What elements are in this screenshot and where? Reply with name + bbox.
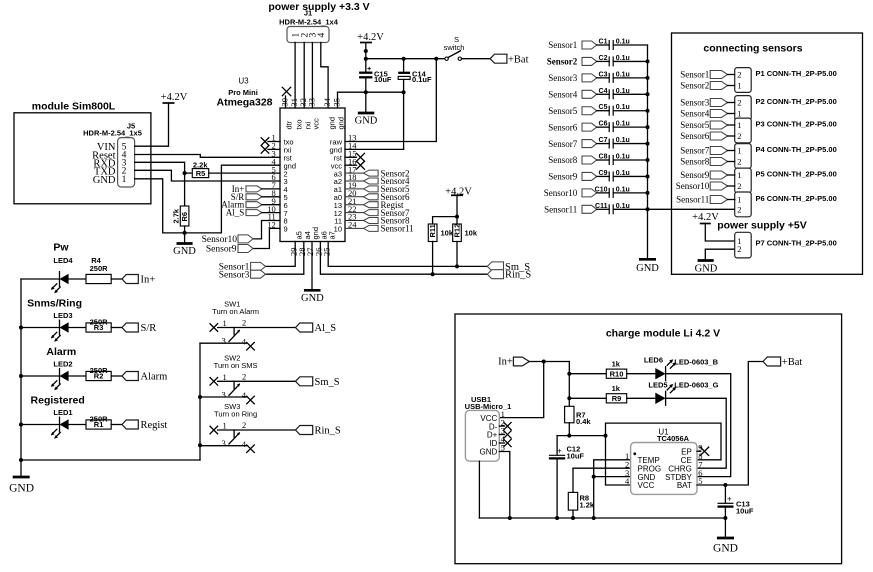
resistor R6 2.7k	[184, 173, 186, 206]
net label Sm_S (switch)	[296, 377, 313, 386]
resistor R9 1k	[569, 397, 606, 399]
svg-text:C6: C6	[599, 121, 608, 128]
resistor R10 1k	[569, 373, 606, 375]
resistor R5 2.2k	[185, 172, 193, 174]
svg-text:1: 1	[737, 195, 741, 205]
wire Sensor11 row to P6 pin2	[648, 208, 735, 210]
net label +Bat (charge)	[763, 357, 781, 366]
wire VCC to U1 pin4	[606, 436, 631, 485]
no-connect X on USB1 D-	[499, 425, 504, 427]
junction TEMP/GND	[592, 475, 596, 479]
svg-text:25: 25	[321, 248, 331, 257]
wire LED ground bus	[20, 279, 22, 460]
svg-text:+Bat: +Bat	[508, 55, 529, 66]
junction gnd line at C15	[364, 90, 368, 94]
wire +4.2V rail	[366, 58, 445, 60]
wire gnd line under R6	[163, 232, 222, 234]
wire Sensor7 to P4	[728, 150, 735, 152]
switch SW1 pin4 no-connect X	[247, 342, 255, 350]
connector P7 body	[735, 232, 752, 258]
svg-text:Sensor1: Sensor1	[680, 70, 709, 80]
svg-text:1.2k: 1.2k	[580, 500, 595, 509]
svg-text:Sensor9: Sensor9	[548, 172, 577, 182]
svg-text:R12: R12	[452, 224, 461, 238]
no-connect X on U3 pin1	[268, 141, 280, 143]
capacitor C13 10uF	[724, 485, 726, 503]
no-connect X on USB1 D+	[499, 434, 504, 436]
wire J5.4 Reset to U3 rst pin3	[135, 155, 280, 158]
net label Sensor8 (U3 right)	[345, 220, 364, 222]
svg-text:Sensor1: Sensor1	[548, 40, 577, 50]
svg-text:Sensor7: Sensor7	[680, 146, 709, 156]
net label Alarm (LED)	[111, 375, 122, 377]
svg-text:HDR-M-2.54_1x5: HDR-M-2.54_1x5	[83, 129, 142, 138]
net label +Bat (top)	[490, 54, 507, 63]
capacitor C4 0.1u	[597, 93, 610, 95]
wire switch to +Bat	[462, 58, 491, 60]
svg-text:+: +	[367, 66, 371, 73]
svg-text:connecting sensors: connecting sensors	[703, 43, 802, 55]
junction feed R10	[567, 372, 571, 376]
svg-text:3: 3	[222, 336, 226, 346]
wire J1.2 to U3 pin32	[303, 43, 305, 109]
wire J5.3 RXD to divider node	[135, 162, 185, 173]
net label Sm_S (right)	[487, 262, 503, 271]
svg-text:Alarm: Alarm	[46, 346, 76, 358]
LED LED4	[21, 278, 60, 280]
svg-text:1: 1	[122, 175, 127, 185]
connector P6 body	[735, 192, 752, 217]
svg-text:9: 9	[284, 225, 288, 234]
ground (cap array)	[639, 258, 656, 261]
wire U3 a7 to Sm_S line	[328, 242, 487, 267]
wire Sensor8 to P4	[728, 161, 735, 163]
switch SW1 pole	[233, 328, 235, 335]
svg-text:4: 4	[242, 390, 247, 400]
svg-text:LED-0603_B: LED-0603_B	[674, 357, 718, 366]
no-connect X on U3 pin30 dtr	[285, 96, 287, 108]
wire Sensor11 to P6	[728, 199, 735, 201]
svg-text:a7: a7	[327, 231, 336, 239]
svg-text:Sensor11: Sensor11	[381, 224, 414, 234]
net label Regist (LED)	[111, 424, 122, 426]
wire +4.2V to P7 pin1	[705, 224, 734, 242]
svg-text:+Bat: +Bat	[782, 357, 803, 368]
svg-text:P5 CONN-TH_2P-P5.00: P5 CONN-TH_2P-P5.00	[756, 170, 837, 179]
net label In+ (LED)	[111, 278, 122, 280]
junction feed R9	[567, 396, 571, 400]
svg-text:Sensor11: Sensor11	[676, 195, 709, 205]
svg-text:LED6: LED6	[644, 356, 663, 365]
svg-text:In+: In+	[141, 275, 156, 286]
net label Rin_S (switch)	[296, 426, 313, 435]
svg-text:vcc: vcc	[312, 118, 321, 130]
svg-text:+4.2V: +4.2V	[161, 92, 188, 103]
wire C4 to gnd bus	[613, 93, 647, 95]
wire Sensor9 to U3 pin12	[253, 228, 280, 248]
switch SW1 top contact wire	[218, 327, 296, 329]
junction on +4.2V stem	[364, 49, 368, 53]
svg-text:Sensor11: Sensor11	[544, 205, 577, 215]
wire charge ground rail	[479, 517, 725, 519]
no-connect X on U3 vcc pin16	[345, 164, 357, 166]
svg-text:Sensor8: Sensor8	[680, 157, 709, 167]
svg-text:GND: GND	[173, 246, 196, 257]
capacitor C11 0.1u	[597, 208, 610, 210]
frame charge module	[455, 314, 842, 564]
svg-text:2: 2	[737, 181, 741, 191]
svg-text:C9: C9	[599, 170, 608, 177]
switch SW3 bottom contact wire	[200, 445, 247, 447]
svg-text:2: 2	[242, 420, 246, 430]
resistor R8 1.2k	[572, 468, 574, 492]
capacitor C1 0.1u	[597, 44, 610, 46]
svg-text:R6: R6	[180, 212, 189, 222]
connector P3 body	[735, 118, 752, 143]
junction SW2 on bus	[198, 395, 202, 399]
svg-text:1: 1	[737, 81, 741, 91]
resistor R3 250R	[69, 327, 86, 329]
svg-text:Sensor6: Sensor6	[548, 122, 577, 132]
wire TEMP to GND net	[594, 460, 631, 477]
LED LED3	[21, 327, 60, 329]
svg-text:dtr: dtr	[285, 120, 294, 129]
wire VCC rail	[557, 435, 605, 437]
svg-text:2: 2	[737, 98, 741, 108]
svg-text:30: 30	[279, 98, 289, 107]
wire In+ feed	[529, 361, 569, 363]
net label Sensor4 (U3 right)	[345, 180, 364, 182]
switch SW1 bottom contact wire	[200, 342, 247, 344]
net label Rin_S (right)	[487, 270, 503, 279]
wire GND net down	[593, 477, 595, 518]
U1 body	[631, 443, 697, 495]
svg-text:Sensor2: Sensor2	[547, 57, 578, 67]
svg-text:Sm_S: Sm_S	[315, 377, 340, 388]
wire U3 a4 to Sensor3	[266, 242, 304, 275]
svg-text:Alarm: Alarm	[141, 372, 168, 383]
switch SW2 bottom contact wire	[200, 396, 247, 398]
svg-text:P6 CONN-TH_2P-P5.00: P6 CONN-TH_2P-P5.00	[756, 194, 837, 203]
capacitor C14	[403, 59, 405, 72]
connector P1 body	[735, 68, 752, 93]
svg-text:2: 2	[242, 372, 246, 382]
svg-text:2: 2	[737, 131, 741, 141]
svg-text:Sensor10: Sensor10	[676, 181, 710, 191]
U1 pin1 marker	[633, 452, 636, 455]
svg-text:Al_S: Al_S	[315, 323, 337, 334]
svg-text:Sensor4: Sensor4	[548, 89, 577, 99]
svg-text:Snms/Ring: Snms/Ring	[27, 298, 82, 310]
capacitor C2 0.1u	[597, 60, 610, 62]
svg-text:Sensor4: Sensor4	[680, 109, 709, 119]
svg-text:power supply +5V: power supply +5V	[717, 220, 807, 232]
svg-text:C1: C1	[599, 39, 608, 46]
wire C1 to gnd bus	[613, 44, 647, 46]
svg-text:switch: switch	[444, 43, 465, 52]
svg-text:10k: 10k	[465, 229, 478, 238]
net label Sensor7 (U3 right)	[345, 212, 364, 214]
ground (near C15)	[358, 112, 375, 115]
svg-text:Sensor2: Sensor2	[680, 81, 709, 91]
connector P5 body	[735, 168, 752, 193]
svg-text:P2 CONN-TH_2P-P5.00: P2 CONN-TH_2P-P5.00	[756, 97, 837, 106]
switch SW2 top contact wire	[218, 380, 296, 382]
junction In+ to USB VCC	[542, 360, 546, 364]
resistor R11 10k	[432, 217, 434, 224]
wire USB1 shell to rail	[478, 461, 480, 518]
junction rail R8	[571, 516, 575, 520]
svg-text:S/R: S/R	[141, 323, 157, 334]
svg-text:1: 1	[223, 421, 227, 431]
wire Sensor4 to P2	[728, 113, 735, 115]
net label Sensor11 (U3 right)	[345, 227, 364, 229]
svg-text:0.4k: 0.4k	[576, 417, 591, 426]
svg-text:Pw: Pw	[53, 242, 69, 254]
svg-text:2.2k: 2.2k	[193, 161, 208, 170]
junction cap bus	[646, 191, 650, 195]
svg-text:4: 4	[317, 33, 327, 38]
junction divider node	[183, 171, 187, 175]
wire U3 a5 to Sensor1	[266, 242, 296, 267]
svg-text:Regist: Regist	[141, 420, 168, 431]
capacitor C8 0.1u	[597, 159, 610, 161]
connector J5 body	[118, 138, 135, 187]
svg-text:GND: GND	[93, 175, 116, 186]
svg-text:GND: GND	[636, 263, 659, 274]
resistor R12 10k	[456, 217, 458, 224]
svg-text:0.1uF: 0.1uF	[412, 75, 432, 84]
wire J1.4 to U3 pin34	[321, 43, 328, 109]
svg-text:LED3: LED3	[53, 311, 72, 320]
svg-text:10uF: 10uF	[736, 506, 754, 515]
no-connect X on USB1 ID	[499, 442, 504, 444]
svg-text:2.7k: 2.7k	[172, 208, 181, 223]
svg-text:J1: J1	[304, 9, 312, 18]
svg-text:R1: R1	[94, 420, 104, 429]
junction pullup node	[455, 215, 459, 219]
svg-text:U3: U3	[238, 77, 249, 86]
wire J1.1 to U3 pin31	[294, 43, 296, 109]
wire J5.2 TXD to U3 pin6	[135, 170, 280, 181]
net label S/R (LED)	[111, 327, 122, 329]
capacitor C9 0.1u	[597, 175, 610, 177]
svg-text:Turn on Ring: Turn on Ring	[214, 410, 257, 419]
LED LED1	[21, 424, 60, 426]
wire In+ down feed	[568, 362, 570, 407]
connector P4 body	[735, 144, 752, 169]
junction cap bus	[646, 76, 650, 80]
ground (LED bus)	[20, 460, 22, 477]
svg-text:4: 4	[242, 336, 247, 346]
svg-text:charge module Li 4.2 V: charge module Li 4.2 V	[606, 328, 720, 340]
wire J5.5 VIN to +4.2V	[135, 103, 169, 146]
wire Sensor5 to P3	[728, 124, 735, 126]
wire Alarm tag to U3	[262, 204, 280, 206]
svg-text:10uF: 10uF	[567, 451, 585, 460]
svg-text:R11: R11	[428, 224, 437, 237]
junction cap bus	[646, 92, 650, 96]
svg-text:P1 CONN-TH_2P-P5.00: P1 CONN-TH_2P-P5.00	[756, 69, 837, 78]
svg-text:1: 1	[223, 318, 227, 328]
capacitor C5 0.1u	[597, 110, 610, 112]
svg-text:1: 1	[737, 109, 741, 119]
wire Sensor2 to P1	[728, 85, 735, 87]
power +4.2V (Sim800L)	[163, 102, 175, 104]
svg-text:3: 3	[222, 438, 226, 448]
junction LED bus	[19, 423, 23, 427]
wire Sensor3 to P2	[728, 102, 735, 104]
junction cap bus	[646, 142, 650, 146]
svg-text:GND: GND	[301, 293, 324, 304]
svg-text:GND: GND	[480, 448, 498, 457]
wire C7 to gnd bus	[613, 143, 647, 145]
svg-text:33: 33	[306, 98, 316, 107]
junction cap bus	[646, 207, 650, 211]
svg-text:C3: C3	[599, 71, 608, 78]
svg-text:Turn on Alarm: Turn on Alarm	[212, 307, 259, 316]
junction cap bus	[646, 59, 650, 63]
svg-text:P7 CONN-TH_2P-P5.00: P7 CONN-TH_2P-P5.00	[756, 239, 837, 248]
net label Sensor6 (U3 right)	[345, 196, 364, 198]
wire U3 pin4 gnd to gnd line	[221, 165, 280, 233]
svg-text:Rin_S: Rin_S	[505, 270, 531, 281]
wire USB1 GND to rail	[499, 452, 510, 519]
svg-text:HDR-M-2.54_1x4: HDR-M-2.54_1x4	[279, 18, 339, 27]
svg-text:1k: 1k	[612, 384, 621, 393]
resistor R1 250R	[69, 424, 86, 426]
U3 body	[280, 108, 345, 242]
wire Sensor10 to P5	[728, 185, 735, 187]
net label Sensor2 (U3 right)	[345, 172, 364, 174]
wire LED6 to STDBY	[666, 374, 731, 477]
svg-text:R5: R5	[196, 169, 206, 178]
wire C3 to gnd bus	[613, 77, 647, 79]
wire In+ tag to U3	[262, 188, 280, 190]
wire C5 to gnd bus	[613, 110, 647, 112]
svg-text:VCC: VCC	[638, 481, 655, 490]
svg-text:C11: C11	[595, 203, 608, 210]
wire U3 raw to rail	[345, 59, 436, 142]
capacitor C7 0.1u	[597, 143, 610, 145]
wire Sensor9 to P5	[728, 174, 735, 176]
net label Regist (U3 right)	[345, 204, 364, 206]
wire Sensor6 to P3	[728, 135, 735, 137]
no-connect X on U3 rst pin15	[345, 156, 357, 158]
switch SW3 pole	[233, 430, 235, 437]
svg-text:Sensor9: Sensor9	[206, 245, 237, 255]
wire U3 gnd pin27 down	[311, 242, 313, 291]
wire U3 a6 to Rin_S line	[320, 242, 487, 275]
capacitor C6 0.1u	[597, 126, 610, 128]
svg-text:LED4: LED4	[53, 256, 73, 265]
svg-text:4: 4	[625, 476, 630, 486]
svg-text:Sensor6: Sensor6	[680, 131, 709, 141]
wire to USB VCC	[499, 362, 543, 418]
junction rail C12	[555, 516, 559, 520]
svg-text:1: 1	[737, 170, 741, 180]
resistor R2 250R	[69, 375, 86, 377]
switch SW2 pin1 no-connect X	[210, 378, 218, 386]
frame connecting sensors	[672, 33, 863, 274]
svg-text:+: +	[557, 447, 562, 456]
svg-text:GND: GND	[695, 264, 718, 275]
svg-text:txo: txo	[294, 119, 303, 129]
switch SW3 top contact wire	[218, 429, 296, 431]
junction rail at C14	[402, 57, 406, 61]
junction R7 bottom	[567, 434, 571, 438]
switch SW1 pin1 no-connect X	[210, 324, 218, 332]
svg-text:Sensor10: Sensor10	[544, 188, 578, 198]
svg-text:P3 CONN-TH_2P-P5.00: P3 CONN-TH_2P-P5.00	[756, 120, 837, 129]
resistor R4 250R	[69, 278, 86, 280]
ground (under U3)	[304, 289, 321, 292]
junction BAT / C13	[723, 483, 727, 487]
svg-text:4: 4	[242, 439, 247, 449]
svg-text:+4.2V: +4.2V	[692, 212, 719, 223]
wire Al_S tag to U3	[262, 212, 280, 214]
svg-text:GND: GND	[9, 483, 34, 495]
svg-text:Rin_S: Rin_S	[315, 426, 341, 437]
svg-text:2: 2	[737, 244, 741, 254]
wire J1.3 to U3 pin33	[311, 43, 313, 109]
svg-text:R10: R10	[610, 369, 624, 378]
wire LED5 to CHRG	[666, 398, 727, 468]
wire C6 to gnd bus	[613, 126, 647, 128]
svg-text:2: 2	[737, 157, 741, 167]
wire LED bus to switch bus	[21, 459, 200, 461]
svg-text:3: 3	[222, 389, 226, 399]
junction cap bus	[646, 125, 650, 129]
net label Al_S (switch)	[296, 323, 313, 332]
ground (charge module)	[724, 518, 726, 538]
connector P2 body	[735, 96, 752, 121]
svg-text:C10: C10	[595, 186, 608, 193]
junction SW3 on bus	[198, 443, 202, 447]
wire PROG to U1 pin2	[573, 467, 631, 469]
junction R12 on Sm_S line	[455, 264, 459, 268]
junction rail gnd net	[592, 516, 596, 520]
svg-text:Sensor9: Sensor9	[680, 170, 709, 180]
svg-text:2: 2	[737, 70, 741, 80]
svg-text:2: 2	[737, 204, 741, 214]
junction rail C13	[723, 516, 727, 520]
svg-text:In+: In+	[498, 357, 513, 368]
capacitor C15	[365, 59, 367, 72]
junction R6 bottom / gnd line	[183, 231, 187, 235]
wire Sensor10 to U3 pin11	[253, 221, 280, 239]
no-connect X on U3 pin2	[268, 148, 280, 150]
svg-text:+: +	[727, 494, 732, 503]
wire C11 to gnd bus	[613, 208, 647, 210]
svg-text:Registered: Registered	[31, 395, 85, 407]
svg-text:Sensor3: Sensor3	[548, 73, 577, 83]
junction LED bus	[19, 374, 23, 378]
svg-text:gnd: gnd	[337, 117, 346, 130]
junction cap bus	[646, 158, 650, 162]
svg-text:Sensor5: Sensor5	[548, 106, 577, 116]
svg-text:power supply +3.3 V: power supply +3.3 V	[268, 1, 369, 13]
svg-text:1: 1	[737, 120, 741, 130]
wire J5.1 GND down	[135, 179, 163, 233]
wire pullup node	[433, 216, 457, 218]
svg-text:LED5: LED5	[648, 381, 667, 390]
wire C8 to gnd bus	[613, 159, 647, 161]
svg-text:Sensor8: Sensor8	[548, 155, 577, 165]
svg-text:P4 CONN-TH_2P-P5.00: P4 CONN-TH_2P-P5.00	[756, 145, 837, 154]
ground (P7)	[698, 259, 714, 262]
svg-text:Sensor7: Sensor7	[548, 139, 577, 149]
